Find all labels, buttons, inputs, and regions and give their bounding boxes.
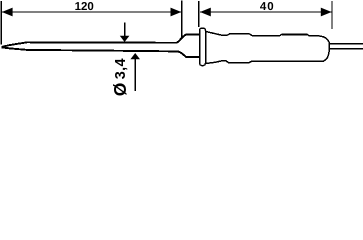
arrowhead left of 40 dim xyxy=(200,8,211,17)
svg-text:40: 40 xyxy=(260,1,275,13)
arrowhead right of 120 dim xyxy=(171,8,182,17)
needle lower outline xyxy=(2,47,200,57)
cable top line xyxy=(329,43,363,45)
flange disc xyxy=(200,28,206,66)
dimension line 120 xyxy=(2,11,181,13)
diameter down arrowhead xyxy=(120,36,130,42)
diameter down arrow shaft xyxy=(124,22,126,36)
extension line left (120 dim) xyxy=(0,1,2,45)
handle bottom outline with grip steps and end cap xyxy=(206,49,330,63)
handle top outline with grip steps and end cap xyxy=(206,31,330,49)
extension line right (40 dim) xyxy=(331,1,333,29)
cable bottom line xyxy=(329,48,363,50)
handle grip band lower line xyxy=(282,34,308,36)
diameter up arrowhead xyxy=(130,53,140,59)
diameter up arrow shaft xyxy=(134,59,136,91)
extension line left (40 dim) xyxy=(198,1,200,27)
extension line right (120 dim) xyxy=(181,1,183,38)
svg-text:3,4: 3,4 xyxy=(113,58,129,79)
svg-text:Ø: Ø xyxy=(110,83,130,96)
svg-text:120: 120 xyxy=(75,1,94,13)
arrowhead left of 120 dim xyxy=(2,8,13,17)
needle upper outline (tip to ferrule to flange) xyxy=(2,35,200,47)
arrowhead right of 40 dim xyxy=(321,8,332,17)
dimension line 40 xyxy=(200,11,331,13)
